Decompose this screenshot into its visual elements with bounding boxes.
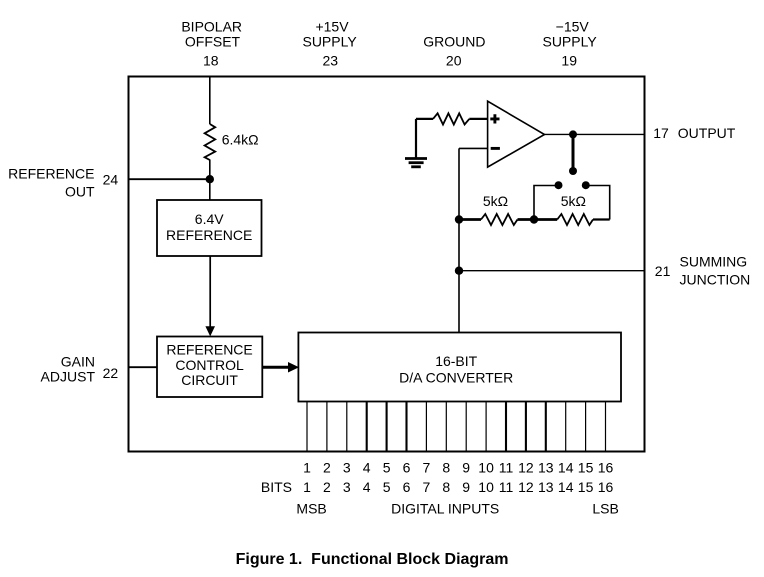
svg-text:14: 14 <box>558 460 574 476</box>
svg-text:23: 23 <box>323 53 339 69</box>
svg-text:CONTROL: CONTROL <box>175 357 244 373</box>
svg-text:ADJUST: ADJUST <box>41 368 96 384</box>
svg-text:16: 16 <box>598 479 614 495</box>
svg-text:GROUND: GROUND <box>423 34 485 50</box>
svg-text:SUMMING: SUMMING <box>680 253 748 269</box>
svg-text:MSB: MSB <box>296 501 326 517</box>
svg-text:8: 8 <box>442 479 450 495</box>
svg-text:−15V: −15V <box>556 19 590 35</box>
svg-text:LSB: LSB <box>592 501 618 517</box>
svg-text:6: 6 <box>403 479 411 495</box>
svg-text:DIGITAL INPUTS: DIGITAL INPUTS <box>391 501 499 517</box>
svg-text:5: 5 <box>383 479 391 495</box>
svg-text:6.4V: 6.4V <box>195 211 224 227</box>
svg-text:5kΩ: 5kΩ <box>483 193 508 209</box>
svg-text:BIPOLAR: BIPOLAR <box>181 19 242 35</box>
svg-text:15: 15 <box>578 460 594 476</box>
svg-text:4: 4 <box>363 479 371 495</box>
svg-text:REFERENCE: REFERENCE <box>166 227 252 243</box>
svg-text:BITS: BITS <box>261 479 292 495</box>
svg-text:OUT: OUT <box>65 184 95 200</box>
svg-text:1: 1 <box>303 460 311 476</box>
svg-text:8: 8 <box>442 460 450 476</box>
svg-text:18: 18 <box>203 53 219 69</box>
svg-text:5kΩ: 5kΩ <box>561 193 586 209</box>
svg-text:14: 14 <box>558 479 574 495</box>
svg-text:20: 20 <box>446 53 462 69</box>
svg-text:22: 22 <box>103 365 119 381</box>
svg-text:+15V: +15V <box>315 19 349 35</box>
svg-text:16: 16 <box>598 460 614 476</box>
svg-text:12: 12 <box>518 460 534 476</box>
svg-text:3: 3 <box>343 479 351 495</box>
svg-text:11: 11 <box>499 479 514 495</box>
svg-text:OFFSET: OFFSET <box>185 34 241 50</box>
svg-text:GAIN: GAIN <box>61 354 95 370</box>
svg-text:D/A CONVERTER: D/A CONVERTER <box>399 369 513 385</box>
svg-text:6.4kΩ: 6.4kΩ <box>222 132 259 148</box>
svg-text:JUNCTION: JUNCTION <box>680 271 751 287</box>
svg-text:REFERENCE: REFERENCE <box>8 165 94 181</box>
svg-text:13: 13 <box>538 479 554 495</box>
svg-text:SUPPLY: SUPPLY <box>542 34 597 50</box>
svg-text:REFERENCE: REFERENCE <box>166 342 252 358</box>
svg-text:4: 4 <box>363 460 371 476</box>
svg-text:12: 12 <box>518 479 534 495</box>
svg-text:SUPPLY: SUPPLY <box>302 34 357 50</box>
svg-text:13: 13 <box>538 460 554 476</box>
svg-text:17: 17 <box>653 125 669 141</box>
svg-text:9: 9 <box>462 460 470 476</box>
svg-text:6: 6 <box>403 460 411 476</box>
svg-text:2: 2 <box>323 479 331 495</box>
svg-text:21: 21 <box>655 263 671 279</box>
svg-text:CIRCUIT: CIRCUIT <box>181 372 238 388</box>
svg-text:15: 15 <box>578 479 594 495</box>
svg-text:24: 24 <box>103 172 119 188</box>
svg-text:3: 3 <box>343 460 351 476</box>
svg-text:10: 10 <box>478 460 494 476</box>
svg-text:7: 7 <box>423 479 431 495</box>
svg-text:Figure 1. Functional Block Di: Figure 1. Functional Block Diagram <box>236 551 509 568</box>
svg-text:7: 7 <box>423 460 431 476</box>
svg-text:9: 9 <box>462 479 470 495</box>
svg-text:OUTPUT: OUTPUT <box>678 125 736 141</box>
svg-text:5: 5 <box>383 460 391 476</box>
svg-text:11: 11 <box>499 460 514 476</box>
svg-text:10: 10 <box>478 479 494 495</box>
svg-text:16-BIT: 16-BIT <box>435 353 477 369</box>
svg-text:19: 19 <box>561 53 577 69</box>
svg-text:2: 2 <box>323 460 331 476</box>
svg-text:1: 1 <box>303 479 311 495</box>
